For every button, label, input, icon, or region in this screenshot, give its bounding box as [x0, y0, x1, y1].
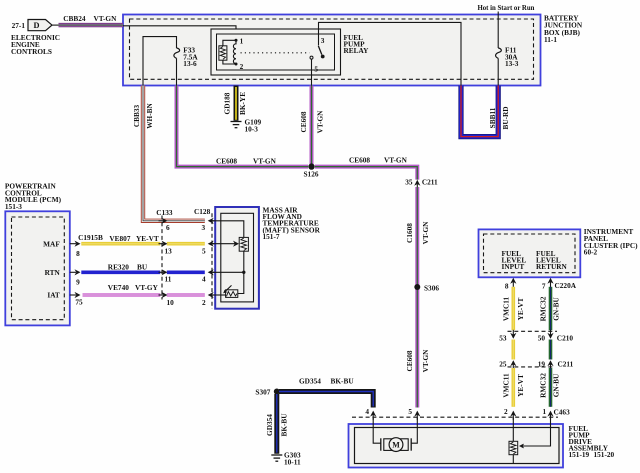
svg-text:6: 6: [166, 223, 170, 232]
svg-text:C220A: C220A: [555, 281, 577, 290]
svg-text:S307: S307: [255, 388, 270, 397]
fuse F33: [174, 46, 199, 86]
wire VMC11 YE-VT segment 3: [501, 368, 525, 407]
motor M1: [381, 438, 411, 452]
svg-text:C211: C211: [422, 178, 438, 187]
svg-text:151-3: 151-3: [5, 202, 22, 211]
PCM pin 75 stub: [70, 292, 83, 307]
svg-text:53: 53: [499, 334, 507, 343]
wire pin 4 to motor: [373, 417, 381, 443]
connector C211 dashed line (right): [508, 360, 574, 369]
C128 pin 4 arrow: [202, 269, 216, 283]
svg-text:S126: S126: [304, 170, 319, 179]
wire inside BJB to relay pin 1: [123, 26, 236, 41]
svg-text:YE-VT: YE-VT: [136, 234, 159, 243]
C211 pin 19 arrow: [538, 360, 554, 370]
wire CE608 VT-GN from S126 to C211: [315, 155, 417, 179]
C133 pin 11 arrow: [159, 269, 172, 283]
svg-text:BK-YE: BK-YE: [238, 92, 247, 115]
svg-text:RELAY: RELAY: [344, 46, 370, 55]
mass air flow and temperature MAFT sensor box: [215, 206, 320, 309]
svg-text:VMC11: VMC11: [501, 373, 510, 398]
svg-text:CE608: CE608: [405, 350, 414, 371]
svg-text:11-1: 11-1: [544, 35, 557, 44]
C211 pin 25 arrow: [499, 360, 516, 370]
wire CBB24 VT-GN: [52, 14, 123, 25]
C463 pin 4 arrow: [365, 407, 376, 420]
svg-text:2: 2: [504, 407, 508, 416]
svg-text:5: 5: [202, 247, 206, 256]
svg-text:RMC32: RMC32: [539, 296, 548, 321]
svg-text:C210: C210: [557, 334, 574, 343]
svg-text:4: 4: [202, 275, 206, 284]
svg-text:GD354: GD354: [299, 377, 321, 386]
svg-text:GN-BU: GN-BU: [552, 373, 561, 397]
svg-text:GD188: GD188: [222, 92, 231, 114]
connector C220A pin 7 arrow: [542, 278, 577, 291]
svg-text:VT-GN: VT-GN: [315, 110, 324, 134]
wire RMC32 GN-BU segment 3: [539, 368, 561, 407]
svg-text:50: 50: [538, 334, 546, 343]
svg-text:BU: BU: [137, 263, 148, 272]
C128 pin 3 arrow: [202, 218, 217, 232]
svg-text:GN-BU: GN-BU: [552, 297, 561, 321]
relay dotted actuation line: [241, 52, 310, 54]
wire CBB33 WH-BN: [132, 86, 205, 221]
splice S306: [414, 284, 439, 293]
PCM pin 9 stub: [70, 269, 81, 286]
C128 pin 5 arrow: [202, 241, 216, 256]
svg-text:19: 19: [538, 360, 546, 369]
wire C1608/CE608 VT-GN long vertical to fuel pump: [405, 187, 430, 408]
svg-text:2: 2: [202, 298, 206, 307]
svg-text:35: 35: [405, 178, 413, 187]
svg-text:MAF: MAF: [43, 240, 60, 249]
svg-text:D: D: [34, 21, 40, 30]
wire pin 5 to motor: [411, 417, 417, 443]
PCM pin 8 stub (connector C1915B): [70, 233, 103, 258]
sensor IAT thermistor: [212, 285, 238, 297]
svg-text:1: 1: [240, 37, 244, 46]
svg-text:IAT: IAT: [47, 291, 60, 300]
svg-text:RMC32: RMC32: [539, 373, 548, 398]
svg-text:Hot in Start or Run: Hot in Start or Run: [478, 5, 535, 12]
svg-text:VT-GN: VT-GN: [253, 156, 277, 165]
wire VE740 VT-GY (IAT): [83, 283, 205, 295]
relay coil: [233, 40, 236, 64]
battery junction box BJB: [123, 14, 583, 86]
svg-text:27-1: 27-1: [12, 21, 26, 30]
svg-text:25: 25: [499, 360, 507, 369]
wire VMC11 YE-VT segment 1: [501, 287, 525, 330]
wire GD354 BK-BU horizontal: [279, 377, 373, 408]
svg-text:151-20: 151-20: [594, 450, 615, 459]
svg-text:1: 1: [543, 407, 547, 416]
C210 pin 50 arrow: [538, 330, 554, 343]
relay pin 1: [235, 37, 244, 46]
C128 pin 2 arrow: [202, 292, 216, 307]
C210 pin 53 arrow: [499, 330, 516, 343]
svg-text:75: 75: [75, 298, 83, 307]
C133 pin 6 arrow: [159, 218, 171, 232]
svg-text:VT-GN: VT-GN: [384, 155, 408, 164]
splice S307: [255, 388, 279, 397]
svg-text:GD354: GD354: [265, 414, 274, 436]
svg-text:C463: C463: [554, 408, 571, 417]
svg-text:RTN: RTN: [45, 268, 61, 277]
svg-text:5: 5: [408, 407, 412, 416]
svg-text:3: 3: [202, 223, 206, 232]
svg-text:13: 13: [165, 247, 173, 256]
wire relay pin3 to F11 inside BJB: [319, 22, 462, 85]
svg-text:VE740: VE740: [108, 283, 129, 292]
connector C133 dashed line: [156, 208, 173, 300]
svg-text:2: 2: [240, 62, 244, 71]
svg-text:BK-BU: BK-BU: [331, 377, 355, 386]
svg-text:CBB33: CBB33: [132, 105, 141, 128]
svg-text:11: 11: [165, 275, 172, 284]
fuel pump relay outer box: [211, 29, 369, 75]
C133 pin 13 arrow: [159, 241, 173, 256]
svg-text:WH-BN: WH-BN: [145, 103, 154, 129]
C463 pin 1 arrow: [543, 407, 554, 420]
svg-text:CE608: CE608: [349, 155, 370, 164]
svg-text:CONTROLS: CONTROLS: [11, 47, 52, 56]
svg-text:13-6: 13-6: [183, 59, 197, 68]
fuel level sender resistor: [509, 441, 518, 463]
connector C211 (pin 35): [405, 178, 438, 190]
svg-text:VMC11: VMC11: [501, 296, 510, 321]
wire RE320 BU (RTN): [81, 263, 205, 273]
ground G303: [271, 451, 301, 467]
wire RMC32 GN-BU segment 1: [539, 287, 561, 330]
svg-text:10-11: 10-11: [284, 458, 301, 467]
svg-text:10-3: 10-3: [245, 125, 259, 134]
powertrain control module PCM: [5, 181, 70, 325]
connector C210 dashed line: [508, 331, 574, 342]
fuel pump drive assembly box: [349, 424, 615, 468]
svg-text:4: 4: [365, 407, 369, 416]
svg-text:RE320: RE320: [108, 263, 129, 272]
instrument panel cluster IPC: [479, 227, 639, 277]
relay parallel resistor: [219, 40, 236, 64]
connector C220A pin 8 arrow: [505, 278, 517, 291]
wire GD354 BK-BU down to ground: [265, 394, 288, 454]
svg-text:M: M: [392, 441, 400, 450]
svg-text:10: 10: [167, 298, 175, 307]
wire pin 2 to fuel level sender: [512, 417, 514, 441]
fuse F11: [496, 12, 519, 86]
relay pin 3 and switch: [318, 36, 325, 59]
svg-text:C1608: C1608: [405, 223, 414, 243]
svg-text:BU-RD: BU-RD: [501, 106, 510, 129]
svg-text:YE-VT: YE-VT: [516, 298, 525, 321]
svg-text:8: 8: [505, 282, 509, 291]
sensor MAF signal wire with arrow: [212, 241, 239, 247]
splice S126: [304, 163, 319, 178]
svg-text:CE608: CE608: [216, 156, 237, 165]
sensor internal supply wire: [212, 221, 244, 238]
sensor internal return wire and node: [212, 251, 245, 293]
C133 pin 10 arrow: [159, 292, 175, 307]
svg-text:RETURN: RETURN: [536, 262, 568, 271]
svg-text:CE608: CE608: [299, 111, 308, 132]
svg-text:INPUT: INPUT: [502, 262, 525, 271]
svg-text:C128: C128: [194, 207, 211, 216]
C463 pin 5 arrow: [408, 407, 420, 420]
wire CE608 VT-GN from F33 down to S126: [177, 86, 309, 167]
connector C463 dashed line: [352, 408, 570, 418]
svg-text:C1915B: C1915B: [78, 233, 103, 242]
svg-text:YE-VT: YE-VT: [516, 374, 525, 397]
svg-text:3: 3: [321, 36, 325, 45]
relay pin 2: [235, 62, 244, 71]
svg-text:151-7: 151-7: [263, 232, 280, 241]
svg-text:SBB11: SBB11: [488, 107, 497, 128]
relay pin 5: [310, 56, 318, 85]
svg-text:5: 5: [314, 64, 318, 73]
wire pin 1 to fuel level sender wiper: [524, 417, 551, 446]
svg-text:60-2: 60-2: [584, 248, 598, 257]
svg-text:VT-GN: VT-GN: [421, 221, 430, 245]
wire VE807 YE-VT (MAF): [81, 234, 205, 244]
connector flag D (electronic engine controls): [11, 20, 60, 56]
svg-text:VT-GN: VT-GN: [421, 349, 430, 373]
svg-text:VT-GY: VT-GY: [135, 283, 159, 292]
C463 pin 2 arrow: [504, 407, 516, 420]
svg-text:BK-BU: BK-BU: [279, 413, 288, 437]
svg-text:9: 9: [76, 278, 80, 287]
svg-text:7: 7: [542, 282, 546, 291]
svg-text:C211: C211: [558, 360, 574, 369]
svg-text:8: 8: [76, 249, 80, 258]
svg-text:CBB24: CBB24: [63, 14, 86, 23]
wire inside BJB: WH-BN up to fuse F33: [143, 37, 177, 86]
svg-text:VT-GN: VT-GN: [94, 14, 118, 23]
connector C128 dashed line: [194, 207, 212, 309]
wire YE-VT segment 2: [511, 340, 515, 360]
wire GN-BU segment 2: [549, 340, 553, 360]
ground G109: [231, 117, 262, 133]
wire SBB11 BU-RD: [461, 86, 510, 137]
sensor MAF element resistor: [239, 237, 248, 251]
svg-text:S306: S306: [424, 284, 439, 293]
wire CE608 VT-GN relay pin5 down: [299, 86, 325, 165]
wire GD188 BK-YE: [222, 86, 247, 121]
svg-text:C133: C133: [156, 208, 173, 217]
svg-text:151-19: 151-19: [569, 450, 590, 459]
svg-text:VE807: VE807: [109, 234, 130, 243]
svg-text:13-3: 13-3: [505, 59, 519, 68]
